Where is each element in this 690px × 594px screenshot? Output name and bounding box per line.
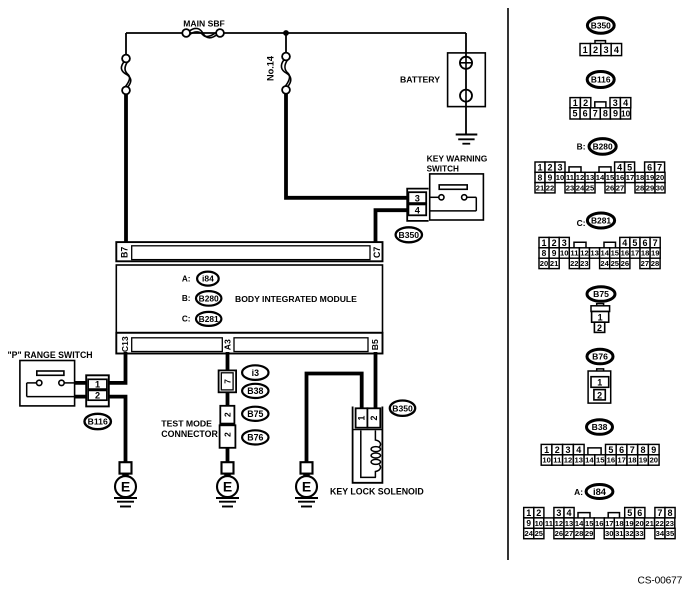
svg-text:15: 15 (611, 249, 620, 258)
svg-text:TEST MODE: TEST MODE (161, 419, 212, 429)
svg-text:30: 30 (656, 184, 664, 193)
svg-text:4: 4 (622, 238, 627, 248)
svg-text:SWITCH: SWITCH (427, 165, 459, 174)
svg-text:25: 25 (586, 184, 595, 193)
svg-text:4: 4 (623, 98, 628, 108)
svg-text:2: 2 (555, 445, 560, 455)
svg-text:16: 16 (607, 456, 615, 465)
svg-text:A:: A: (182, 274, 191, 283)
svg-text:6: 6 (642, 238, 647, 248)
svg-text:28: 28 (651, 259, 659, 268)
svg-text:3: 3 (613, 98, 618, 108)
svg-text:14: 14 (575, 519, 584, 528)
svg-text:11: 11 (553, 456, 562, 465)
svg-text:2: 2 (223, 432, 233, 437)
svg-text:2: 2 (552, 238, 557, 248)
svg-text:i84: i84 (593, 486, 607, 497)
svg-text:5: 5 (627, 508, 632, 518)
svg-text:26: 26 (555, 529, 563, 538)
svg-text:19: 19 (625, 519, 633, 528)
svg-text:4: 4 (576, 445, 581, 455)
svg-text:B:: B: (577, 142, 586, 152)
svg-text:19: 19 (639, 456, 647, 465)
svg-text:No.14: No.14 (265, 55, 275, 81)
svg-text:C:: C: (182, 315, 191, 324)
svg-text:16: 16 (616, 173, 624, 182)
svg-text:17: 17 (626, 173, 634, 182)
svg-text:B281: B281 (591, 216, 611, 226)
svg-text:CS-00677: CS-00677 (638, 576, 683, 587)
svg-text:22: 22 (546, 184, 554, 193)
svg-text:20: 20 (540, 259, 548, 268)
svg-text:3: 3 (565, 445, 570, 455)
svg-text:16: 16 (621, 249, 629, 258)
svg-text:B38: B38 (247, 386, 263, 396)
svg-text:E: E (121, 479, 130, 495)
svg-text:9: 9 (526, 518, 531, 528)
svg-text:7: 7 (630, 445, 635, 455)
svg-text:7: 7 (657, 508, 662, 518)
svg-text:KEY WARNING: KEY WARNING (427, 153, 488, 163)
svg-text:8: 8 (542, 248, 547, 258)
svg-text:A3: A3 (223, 339, 233, 350)
svg-text:10: 10 (621, 109, 631, 118)
svg-text:2: 2 (597, 390, 602, 400)
svg-text:B350: B350 (399, 230, 420, 240)
svg-text:20: 20 (650, 456, 658, 465)
svg-text:B350: B350 (591, 20, 611, 30)
svg-text:28: 28 (636, 184, 644, 193)
svg-text:27: 27 (641, 259, 649, 268)
svg-text:CONNECTOR: CONNECTOR (161, 429, 218, 439)
svg-text:6: 6 (619, 445, 624, 455)
svg-text:27: 27 (616, 184, 624, 193)
svg-text:3: 3 (415, 193, 420, 203)
svg-text:5: 5 (572, 109, 577, 119)
svg-text:10: 10 (560, 249, 568, 258)
svg-text:3: 3 (562, 238, 567, 248)
svg-text:B75: B75 (593, 289, 609, 299)
svg-text:14: 14 (585, 456, 594, 465)
svg-text:B76: B76 (592, 352, 608, 362)
svg-text:B280: B280 (199, 293, 219, 303)
svg-text:2: 2 (536, 508, 541, 518)
svg-text:B280: B280 (593, 141, 613, 151)
svg-text:21: 21 (536, 184, 545, 193)
svg-text:1: 1 (357, 415, 367, 420)
svg-text:11: 11 (566, 173, 575, 182)
svg-text:18: 18 (615, 519, 623, 528)
svg-text:3: 3 (603, 45, 608, 55)
svg-text:6: 6 (583, 109, 588, 119)
svg-text:22: 22 (570, 259, 578, 268)
svg-text:15: 15 (606, 173, 615, 182)
svg-text:7: 7 (653, 238, 658, 248)
svg-text:BODY INTEGRATED MODULE: BODY INTEGRATED MODULE (235, 294, 357, 304)
svg-text:19: 19 (646, 173, 654, 182)
svg-text:B350: B350 (392, 403, 413, 413)
svg-text:18: 18 (628, 456, 636, 465)
svg-text:11: 11 (570, 249, 579, 258)
svg-text:22: 22 (655, 519, 663, 528)
svg-text:2: 2 (583, 98, 588, 108)
svg-text:B116: B116 (88, 417, 108, 427)
svg-text:23: 23 (566, 184, 574, 193)
svg-text:5: 5 (627, 162, 632, 172)
svg-text:25: 25 (611, 259, 620, 268)
svg-text:24: 24 (576, 184, 585, 193)
svg-text:2: 2 (597, 323, 602, 333)
svg-text:10: 10 (556, 173, 564, 182)
svg-text:12: 12 (580, 249, 588, 258)
svg-text:23: 23 (580, 259, 588, 268)
svg-text:6: 6 (637, 508, 642, 518)
svg-text:8: 8 (538, 173, 543, 183)
svg-text:31: 31 (615, 529, 624, 538)
svg-text:35: 35 (666, 529, 675, 538)
svg-text:17: 17 (631, 249, 639, 258)
svg-text:8: 8 (640, 445, 645, 455)
svg-text:2: 2 (547, 162, 552, 172)
svg-text:13: 13 (586, 173, 594, 182)
svg-text:1: 1 (95, 380, 100, 390)
svg-text:E: E (302, 479, 311, 495)
svg-text:14: 14 (596, 173, 605, 182)
svg-text:4: 4 (617, 162, 622, 172)
svg-text:25: 25 (535, 529, 544, 538)
svg-text:24: 24 (524, 529, 533, 538)
svg-text:14: 14 (600, 249, 609, 258)
svg-text:BATTERY: BATTERY (400, 75, 440, 85)
svg-text:B281: B281 (199, 314, 219, 324)
svg-text:18: 18 (641, 249, 649, 258)
svg-text:7: 7 (593, 109, 598, 119)
svg-text:13: 13 (565, 519, 573, 528)
svg-text:32: 32 (625, 529, 633, 538)
svg-text:15: 15 (596, 456, 605, 465)
svg-text:KEY LOCK SOLENOID: KEY LOCK SOLENOID (330, 487, 424, 497)
svg-text:1: 1 (544, 445, 549, 455)
svg-text:34: 34 (656, 529, 665, 538)
svg-text:9: 9 (651, 445, 656, 455)
svg-text:C7: C7 (372, 247, 382, 258)
svg-text:15: 15 (585, 519, 594, 528)
svg-text:5: 5 (608, 445, 613, 455)
svg-text:23: 23 (665, 519, 673, 528)
svg-text:17: 17 (605, 519, 613, 528)
svg-text:11: 11 (545, 519, 554, 528)
svg-text:13: 13 (590, 249, 598, 258)
svg-text:1: 1 (597, 378, 602, 388)
svg-text:30: 30 (605, 529, 613, 538)
svg-text:B76: B76 (247, 433, 263, 443)
svg-text:B75: B75 (247, 409, 263, 419)
svg-text:4: 4 (415, 206, 421, 216)
svg-text:i84: i84 (202, 274, 214, 284)
svg-text:8: 8 (603, 109, 608, 119)
svg-text:18: 18 (636, 173, 644, 182)
svg-text:4: 4 (614, 45, 620, 55)
svg-text:28: 28 (575, 529, 583, 538)
svg-text:7: 7 (657, 162, 662, 172)
svg-text:i3: i3 (252, 368, 259, 378)
svg-text:C:: C: (577, 218, 586, 228)
svg-text:2: 2 (222, 412, 232, 417)
svg-text:3: 3 (556, 508, 561, 518)
svg-text:21: 21 (550, 259, 559, 268)
svg-text:MAIN SBF: MAIN SBF (183, 19, 225, 29)
svg-text:21: 21 (645, 519, 654, 528)
svg-text:24: 24 (600, 259, 609, 268)
svg-text:29: 29 (646, 184, 654, 193)
svg-text:29: 29 (585, 529, 593, 538)
svg-text:2: 2 (95, 391, 100, 401)
svg-text:4: 4 (566, 508, 571, 518)
svg-text:26: 26 (621, 259, 629, 268)
svg-text:2: 2 (593, 45, 598, 55)
svg-text:A:: A: (574, 487, 583, 497)
svg-text:9: 9 (613, 109, 618, 119)
svg-text:1: 1 (583, 45, 588, 55)
svg-text:12: 12 (576, 173, 584, 182)
svg-text:1: 1 (541, 238, 546, 248)
svg-text:9: 9 (552, 248, 557, 258)
svg-text:10: 10 (535, 519, 543, 528)
svg-text:B:: B: (182, 294, 191, 303)
svg-text:13: 13 (574, 456, 582, 465)
svg-text:6: 6 (647, 162, 652, 172)
svg-text:20: 20 (635, 519, 643, 528)
svg-text:27: 27 (565, 529, 573, 538)
svg-text:1: 1 (537, 162, 542, 172)
svg-text:8: 8 (667, 508, 672, 518)
svg-text:33: 33 (635, 529, 643, 538)
svg-text:9: 9 (548, 173, 553, 183)
svg-text:"P" RANGE SWITCH: "P" RANGE SWITCH (8, 350, 93, 360)
svg-text:B5: B5 (370, 339, 380, 350)
svg-text:5: 5 (632, 238, 637, 248)
svg-text:C13: C13 (120, 336, 130, 352)
svg-text:19: 19 (651, 249, 659, 258)
svg-text:26: 26 (606, 184, 614, 193)
svg-text:B116: B116 (591, 75, 611, 85)
svg-text:1: 1 (526, 508, 531, 518)
svg-text:B7: B7 (120, 247, 130, 258)
svg-text:1: 1 (573, 98, 578, 108)
svg-text:B38: B38 (592, 422, 608, 432)
svg-text:3: 3 (557, 162, 562, 172)
svg-text:E: E (223, 479, 232, 495)
svg-text:12: 12 (555, 519, 563, 528)
svg-text:12: 12 (564, 456, 572, 465)
svg-text:16: 16 (595, 519, 603, 528)
svg-text:1: 1 (598, 312, 603, 322)
svg-text:2: 2 (369, 415, 379, 420)
svg-text:7: 7 (222, 379, 232, 384)
svg-text:17: 17 (617, 456, 625, 465)
svg-text:20: 20 (656, 173, 664, 182)
svg-text:10: 10 (542, 456, 550, 465)
